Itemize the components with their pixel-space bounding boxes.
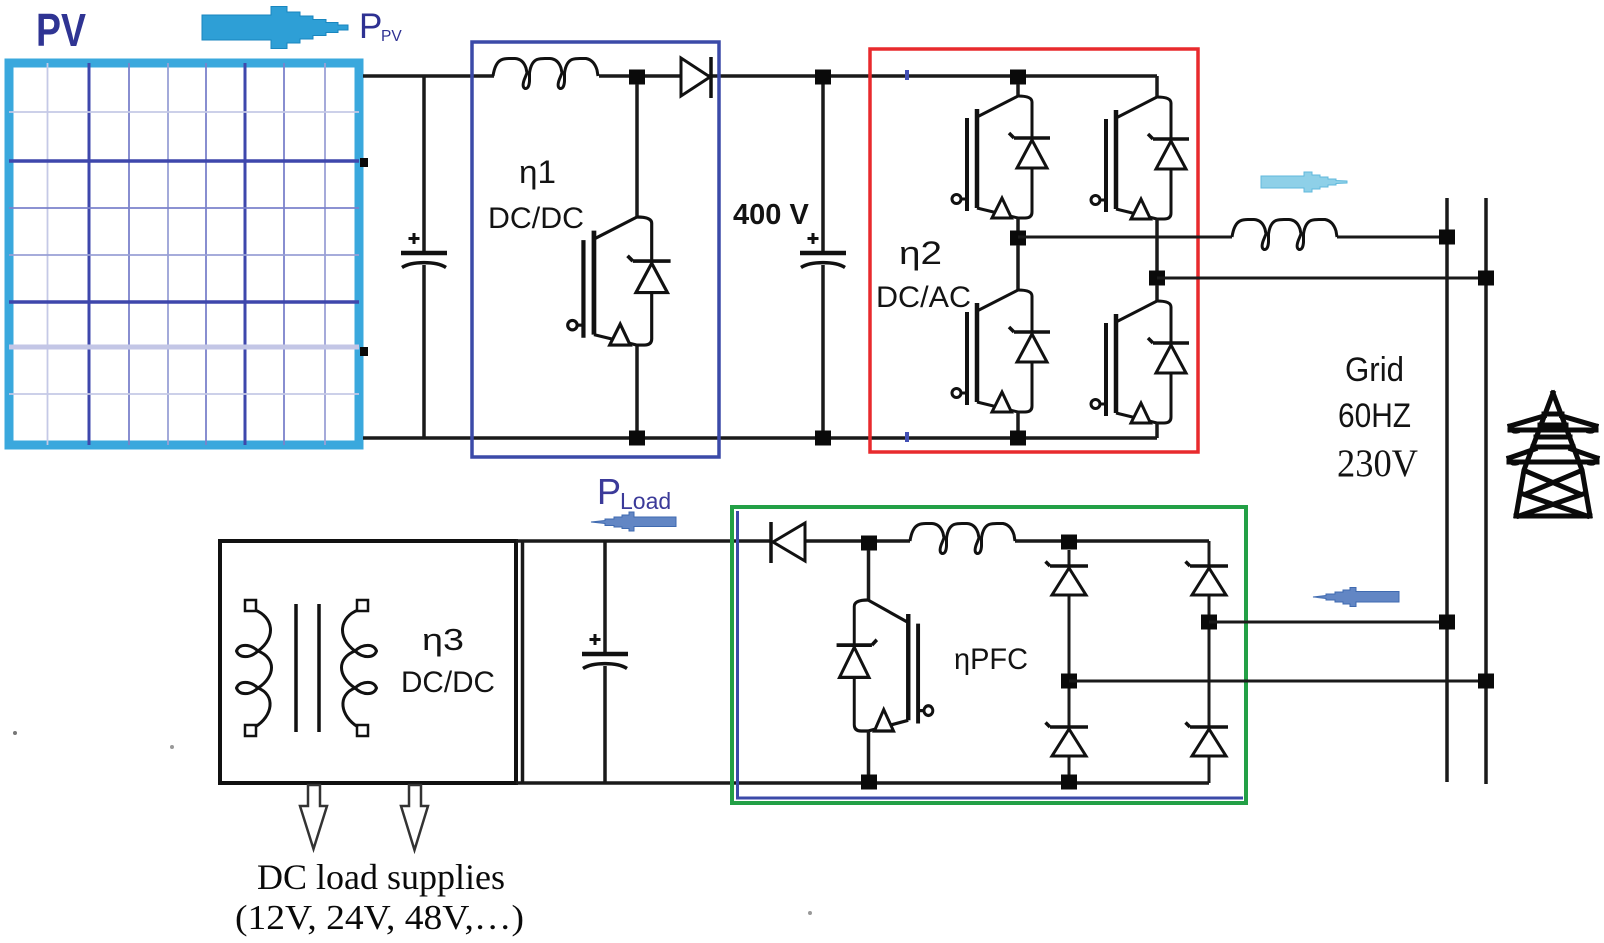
transistor Q1 (boost IGBT) xyxy=(568,84,671,438)
wire ac in A xyxy=(1209,621,1447,624)
node F (dc- rail) xyxy=(1010,431,1026,446)
node N3 xyxy=(861,775,877,790)
node N8 xyxy=(1478,674,1494,689)
dc load arrow 2 xyxy=(401,785,428,850)
diode D7 (bridge bottom-right) xyxy=(1186,723,1229,757)
bridge left leg wire xyxy=(1068,550,1071,783)
transistor Q3 (bridge top-right) xyxy=(1091,76,1189,278)
blue tick bottom xyxy=(905,432,909,442)
svg-text:η1: η1 xyxy=(519,154,556,190)
load box eta3 DC/DC xyxy=(220,541,516,783)
wire phase B xyxy=(1157,277,1486,280)
wire bottom rail xyxy=(363,436,1157,440)
svg-text:ηPFC: ηPFC xyxy=(954,643,1028,676)
svg-text:(12V, 24V, 48V,…): (12V, 24V, 48V,…) xyxy=(235,898,524,937)
transistor Q2 (bridge top-left) xyxy=(952,84,1050,238)
svg-text:P: P xyxy=(359,7,382,46)
wire phase A xyxy=(1018,236,1447,239)
power flow arrow PPV xyxy=(202,7,348,49)
transistor Q4 (bridge bottom-left) xyxy=(952,245,1050,438)
node N4 (left midpoint) xyxy=(1061,674,1077,689)
transistor Q6 (PFC switch, mirrored) xyxy=(837,550,933,783)
svg-text:DC load supplies: DC load supplies xyxy=(257,857,505,897)
node G (right midpoint) xyxy=(1149,271,1165,286)
node N2 xyxy=(1061,535,1077,550)
capacitor C1 xyxy=(401,76,447,438)
diode D1 xyxy=(681,57,711,98)
node C bottom xyxy=(815,431,831,446)
capacitor C3 xyxy=(582,541,628,783)
load power arrow xyxy=(591,512,676,531)
speck 2 xyxy=(170,745,174,749)
grid line 2 xyxy=(1484,198,1488,784)
pfc box etaPFC xyxy=(732,507,1246,803)
node D (dc+ rail) xyxy=(1010,70,1026,85)
transformer T1 xyxy=(237,600,377,736)
diode D5 (bridge top-right) xyxy=(1186,562,1229,596)
node PV edge top xyxy=(360,158,368,167)
svg-text:Grid: Grid xyxy=(1345,351,1404,389)
wire load bottom rail xyxy=(516,781,1209,785)
inverter box eta2 DC/AC xyxy=(870,49,1198,452)
svg-text:DC/DC: DC/DC xyxy=(488,202,584,235)
node E (left midpoint) xyxy=(1010,231,1026,246)
node A xyxy=(629,70,645,85)
svg-text:Load: Load xyxy=(620,488,671,514)
svg-text:P: P xyxy=(597,471,621,512)
pfc box blue underlay xyxy=(738,511,1244,798)
node H xyxy=(1439,230,1455,245)
svg-text:230V: 230V xyxy=(1337,442,1418,485)
svg-text:60HZ: 60HZ xyxy=(1338,397,1411,435)
node N1 xyxy=(861,536,877,551)
dc load arrow 1 xyxy=(300,785,327,849)
bridge right leg wire xyxy=(1208,541,1211,783)
svg-text:400 V: 400 V xyxy=(733,199,809,231)
svg-text:PV: PV xyxy=(381,28,402,45)
wire ac in B xyxy=(1069,680,1486,683)
ac output arrow xyxy=(1261,172,1347,192)
diode D6 (bridge bottom-left) xyxy=(1046,723,1089,757)
PV panel grid lines xyxy=(9,63,359,445)
node B xyxy=(629,431,645,446)
svg-text:PV: PV xyxy=(36,4,86,56)
diode D4 (bridge top-left) xyxy=(1046,562,1089,596)
svg-text:η2: η2 xyxy=(899,235,942,271)
node I xyxy=(1478,271,1494,286)
inductor L1 xyxy=(493,59,598,89)
node N5 (bottom left) xyxy=(1061,775,1077,790)
transistor Q5 (bridge bottom-right) xyxy=(1091,285,1189,438)
capacitor C2 xyxy=(800,76,846,438)
transmission tower xyxy=(1509,393,1597,516)
grid power arrow xyxy=(1313,588,1399,607)
svg-text:DC/AC: DC/AC xyxy=(876,281,971,314)
blue tick top xyxy=(905,70,909,80)
inductor L3 xyxy=(910,524,1015,554)
svg-text:DC/DC: DC/DC xyxy=(401,666,495,699)
speck 1 xyxy=(13,731,17,735)
wire inner vertical xyxy=(521,541,525,783)
node N6 (right midpoint) xyxy=(1201,615,1217,630)
svg-text:η3: η3 xyxy=(422,622,464,657)
node N7 xyxy=(1439,615,1455,630)
converter box eta1 DC/DC xyxy=(472,42,719,457)
speck 3 xyxy=(808,911,812,915)
diode D3 xyxy=(771,522,805,563)
PV panel frame xyxy=(9,63,359,445)
node PV edge bottom xyxy=(360,347,368,356)
node C top xyxy=(815,70,831,85)
grid line 1 xyxy=(1445,198,1449,782)
wire top rail xyxy=(363,74,1157,78)
wire load top rail xyxy=(516,539,1209,543)
inductor L2 xyxy=(1232,220,1337,250)
